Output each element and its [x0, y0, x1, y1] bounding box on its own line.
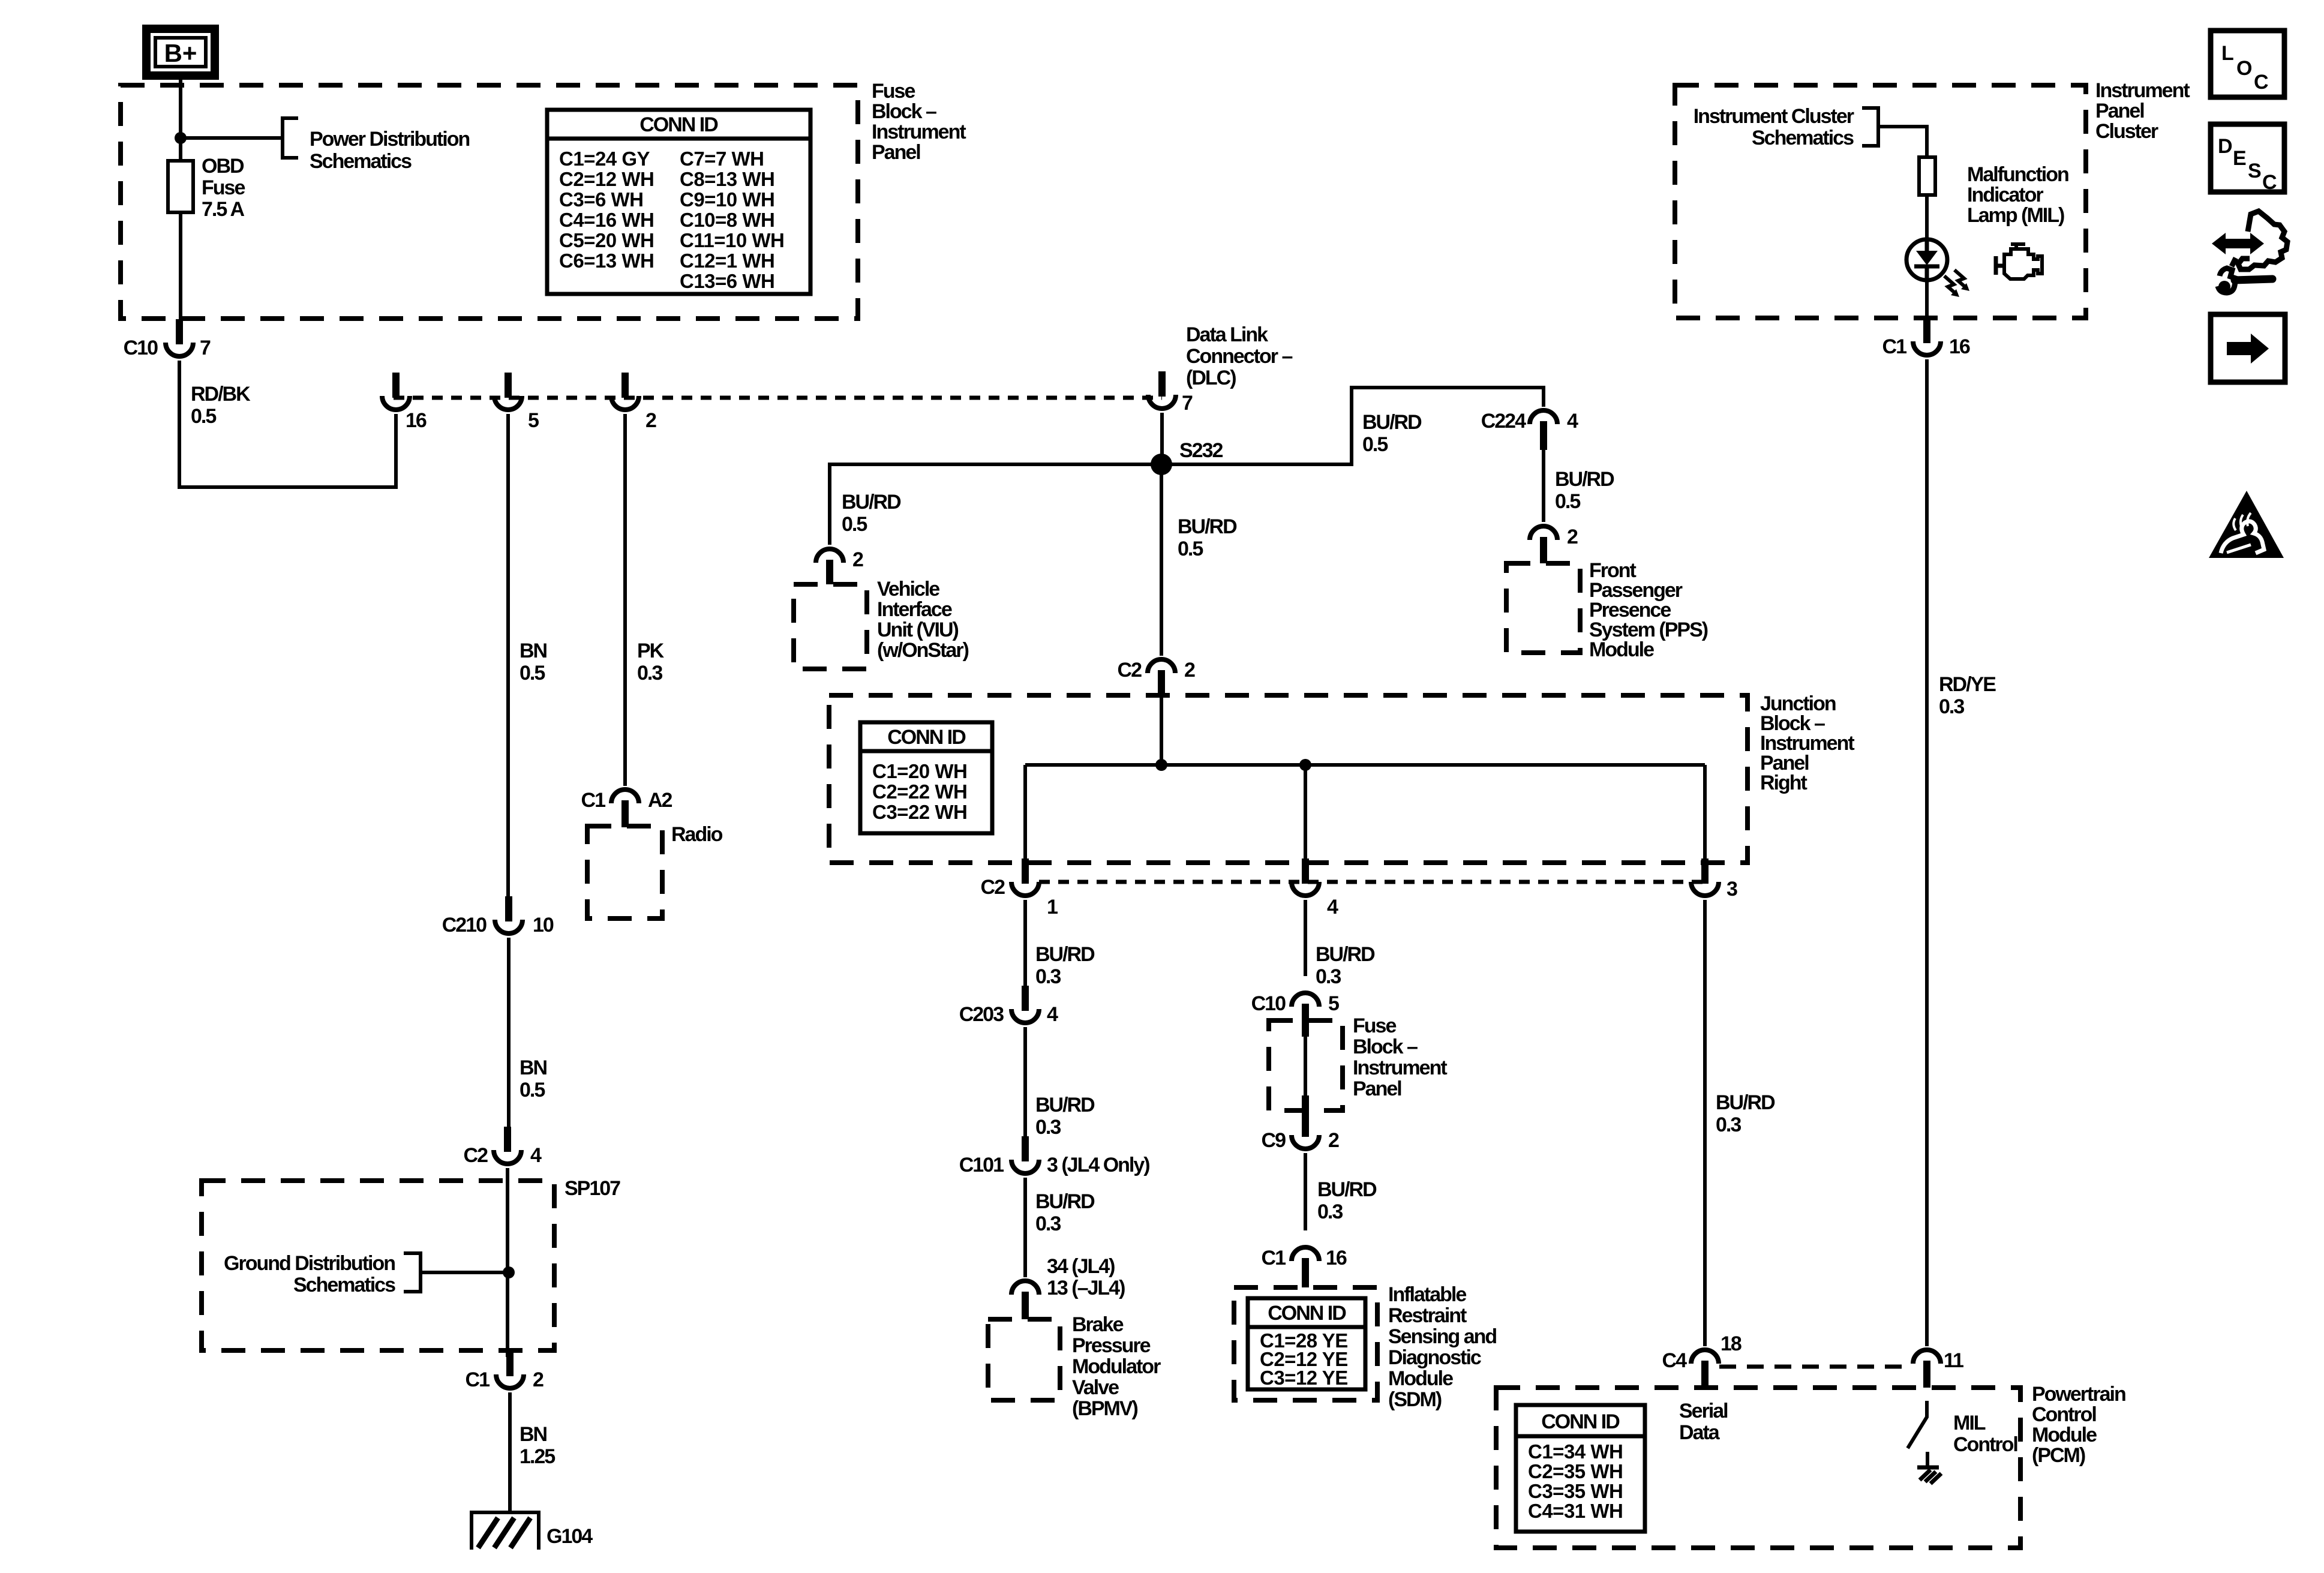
svg-text:C1: C1 — [1882, 335, 1907, 358]
connector BPMV — [1011, 1281, 1039, 1319]
wire LED to C1 — [1925, 280, 1929, 320]
connector DLC pin 2 — [611, 373, 639, 410]
wire S232 to VIU — [830, 464, 1161, 545]
svg-text:4: 4 — [1327, 896, 1338, 918]
bracket Instrument Cluster — [1862, 108, 1878, 146]
svg-text:4: 4 — [1567, 410, 1578, 433]
svg-text:S: S — [2248, 160, 2261, 182]
svg-text:L: L — [2221, 42, 2233, 65]
wire BU/RD 0.3 b1a — [1023, 900, 1027, 987]
svg-text:PK0.3: PK0.3 — [637, 640, 665, 685]
svg-text:C: C — [2262, 171, 2277, 194]
wire BU/RD 0.3 b2b — [1304, 1153, 1307, 1230]
svg-text:C203: C203 — [959, 1003, 1004, 1026]
svg-text:1: 1 — [1047, 896, 1058, 918]
stub fuse block exit — [1302, 1095, 1309, 1113]
svg-text:2: 2 — [1567, 526, 1578, 548]
svg-text:C5=20 WH: C5=20 WH — [559, 229, 654, 251]
icon arrows and wrench — [2212, 211, 2287, 293]
svg-text:C210: C210 — [442, 914, 487, 936]
connector C10 pin 5 — [1292, 993, 1319, 1037]
svg-text:C224: C224 — [1481, 410, 1526, 433]
wire resistor to LED — [1925, 195, 1929, 240]
wire through fuse block — [1304, 1020, 1307, 1110]
CONN ID table PCM — [1516, 1405, 1645, 1532]
svg-text:3: 3 — [1727, 878, 1737, 900]
svg-text:C12=1 WH: C12=1 WH — [680, 250, 774, 272]
icon DESC box — [2211, 124, 2284, 194]
svg-text:C9=10 WH: C9=10 WH — [680, 188, 774, 211]
svg-text:2: 2 — [852, 548, 863, 571]
wire C224 to PPS — [1542, 445, 1545, 522]
junction dot SP107 — [503, 1266, 515, 1278]
icon LOC box — [2211, 31, 2284, 97]
CONN ID table junction block — [860, 722, 992, 833]
ground G104 — [472, 1512, 539, 1550]
junction dot right — [1299, 759, 1311, 771]
CONN ID table SDM — [1248, 1298, 1365, 1389]
svg-text:C1=24 GY: C1=24 GY — [559, 148, 650, 170]
resistor MIL lamp — [1919, 157, 1935, 195]
connector C1 pin 16 — [1292, 1247, 1319, 1287]
svg-text:C11=10 WH: C11=10 WH — [680, 229, 784, 251]
svg-text:C3=12 YE: C3=12 YE — [1260, 1367, 1348, 1389]
junction dot fuse feed — [175, 132, 187, 144]
wire DLC7 to S232 — [1160, 413, 1164, 464]
wire bracket to SP107 — [421, 1271, 509, 1274]
connector C2 pin 1 — [1011, 858, 1039, 896]
svg-text:C: C — [2254, 71, 2268, 94]
svg-text:5: 5 — [528, 409, 539, 432]
svg-text:C1: C1 — [581, 789, 606, 812]
svg-text:CONN ID: CONN ID — [1268, 1302, 1346, 1325]
svg-text:16: 16 — [1949, 335, 1970, 358]
svg-text:SP107: SP107 — [565, 1177, 620, 1200]
fuse block small box — [1269, 1020, 1343, 1110]
wire branch 1 down — [1023, 765, 1027, 864]
svg-text:C2=22 WH: C2=22 WH — [872, 781, 967, 803]
svg-text:Radio: Radio — [671, 823, 723, 846]
connector DLC pin 7 — [1148, 371, 1176, 409]
svg-text:CONN ID: CONN ID — [639, 113, 718, 136]
wire RD/BK 0.5 — [179, 361, 396, 487]
dashed line C4 to 11 — [1719, 1365, 1912, 1369]
dashed bus wire to DLC — [394, 396, 1162, 400]
connector C2 pin 4 splice — [494, 1127, 521, 1164]
wire through SP107 — [506, 1168, 509, 1357]
svg-text:C3=6 WH: C3=6 WH — [559, 188, 643, 211]
svg-text:C2=35 WH: C2=35 WH — [1528, 1460, 1623, 1482]
wire RD/YE 0.3 — [1925, 359, 1929, 1346]
svg-text:C2: C2 — [981, 876, 1005, 899]
connector DLC pin 5 — [494, 373, 522, 410]
splice pack SP107 box — [202, 1181, 554, 1350]
connector C101 pin 3 — [1011, 1136, 1039, 1173]
wire C2 into junction block — [1160, 682, 1163, 765]
instrument panel cluster box — [1675, 85, 2086, 318]
PCM box — [1496, 1388, 2020, 1548]
wire branch 3 down — [1703, 765, 1707, 864]
svg-text:7: 7 — [1182, 392, 1193, 415]
splice S232 — [1151, 454, 1172, 475]
connector C4 pin 18 — [1691, 1350, 1719, 1388]
svg-text:D: D — [2218, 135, 2232, 158]
svg-text:4: 4 — [530, 1144, 542, 1167]
connector VIU pin 2 — [816, 549, 843, 584]
engine icon — [1996, 244, 2042, 279]
power symbol B+ — [146, 29, 215, 76]
svg-text:C4: C4 — [1662, 1349, 1688, 1372]
svg-text:4: 4 — [1047, 1003, 1058, 1026]
wire BU/RD 0.3 b1b — [1023, 1027, 1027, 1137]
svg-text:C3=35 WH: C3=35 WH — [1528, 1480, 1623, 1502]
svg-text:C2: C2 — [464, 1144, 488, 1167]
svg-text:C8=13 WH: C8=13 WH — [680, 168, 774, 190]
bracket Power Distribution — [283, 118, 298, 158]
bracket Ground Distribution — [404, 1253, 421, 1292]
svg-text:3 (JL4 Only): 3 (JL4 Only) — [1047, 1154, 1149, 1176]
wire BN 0.5 upper — [506, 414, 510, 901]
svg-text:C13=6 WH: C13=6 WH — [680, 270, 774, 292]
svg-text:C2: C2 — [1118, 659, 1142, 682]
svg-text:O: O — [2236, 57, 2252, 80]
BPMV box — [988, 1319, 1060, 1400]
svg-text:A2: A2 — [648, 789, 672, 812]
wire BN 1.25 — [508, 1392, 512, 1512]
connector C1 pin 2 — [496, 1351, 524, 1388]
LED MIL lamp — [1906, 239, 1947, 280]
svg-text:11: 11 — [1944, 1349, 1963, 1372]
svg-text:C10: C10 — [1251, 992, 1286, 1015]
wire to power distribution bracket — [181, 136, 281, 140]
svg-text:7: 7 — [200, 337, 211, 359]
connector pin 11 — [1913, 1350, 1941, 1388]
svg-text:16: 16 — [406, 409, 427, 432]
svg-text:B+: B+ — [164, 39, 197, 67]
connector pin 3 — [1691, 858, 1719, 896]
switch MIL control — [1908, 1401, 1927, 1448]
svg-text:C4=16 WH: C4=16 WH — [559, 209, 654, 231]
connector C224 pin 4 — [1530, 410, 1557, 450]
svg-text:2: 2 — [1184, 659, 1195, 682]
connector C10 pin 7 — [166, 319, 193, 356]
SDM box — [1234, 1287, 1377, 1400]
svg-text:BN0.5: BN0.5 — [520, 640, 547, 685]
icon right arrow box — [2211, 314, 2285, 382]
svg-text:C101: C101 — [959, 1154, 1004, 1176]
svg-text:E: E — [2233, 147, 2246, 170]
connector C210 pin 10 — [495, 896, 523, 933]
svg-text:2: 2 — [1328, 1129, 1339, 1152]
svg-text:CONN ID: CONN ID — [1541, 1410, 1620, 1433]
Radio box — [587, 826, 662, 918]
svg-text:S232: S232 — [1179, 439, 1223, 462]
wire BN 0.5 lower — [507, 938, 511, 1128]
svg-text:16: 16 — [1326, 1247, 1347, 1269]
wire PK 0.3 — [623, 414, 627, 786]
ground chassis PCM — [1917, 1467, 1941, 1484]
fuse block - instrument panel box — [121, 85, 858, 319]
svg-text:C10=8 WH: C10=8 WH — [680, 209, 774, 231]
junction block - instrument panel right box — [829, 695, 1747, 863]
svg-text:5: 5 — [1328, 992, 1339, 1015]
svg-text:C4=31 WH: C4=31 WH — [1528, 1500, 1623, 1522]
svg-text:34 (JL4)13 (–JL4): 34 (JL4)13 (–JL4) — [1047, 1255, 1125, 1299]
wire branch 2 down — [1304, 765, 1307, 864]
connector PPS pin 2 — [1530, 526, 1557, 563]
PPS module box — [1506, 563, 1580, 653]
svg-text:2: 2 — [645, 409, 656, 432]
svg-text:BN0.5: BN0.5 — [520, 1056, 547, 1101]
svg-text:C1: C1 — [1262, 1247, 1286, 1269]
fuse OBD 7.5A — [168, 161, 193, 212]
svg-text:10: 10 — [533, 914, 554, 936]
junction block internal bus — [1025, 763, 1705, 767]
icon airbag warning triangle — [2209, 491, 2284, 558]
wire S232 to C224 — [1161, 388, 1544, 464]
wire B+ to fuse — [179, 76, 182, 161]
junction dot left — [1155, 759, 1167, 771]
svg-text:2: 2 — [533, 1368, 544, 1391]
wire bracket to resistor — [1878, 127, 1927, 157]
wire BU/RD 0.3 b1c — [1023, 1178, 1027, 1277]
connector C1 pin 16 cluster — [1913, 318, 1941, 355]
lightning arrows — [1944, 276, 1957, 295]
svg-text:C10: C10 — [124, 337, 158, 359]
svg-text:C6=13 WH: C6=13 WH — [559, 250, 654, 272]
connector C2 pin 2 junction block — [1148, 659, 1175, 695]
svg-text:C2=12 WH: C2=12 WH — [559, 168, 654, 190]
connector C203 pin 4 — [1011, 986, 1039, 1023]
svg-text:G104: G104 — [547, 1525, 593, 1548]
connector pin 4 — [1292, 858, 1319, 896]
svg-text:C1=20 WH: C1=20 WH — [872, 760, 967, 782]
svg-text:C3=22 WH: C3=22 WH — [872, 801, 967, 823]
svg-text:C1=34 WH: C1=34 WH — [1528, 1440, 1623, 1463]
svg-text:C9: C9 — [1262, 1129, 1286, 1152]
wire BU/RD 0.3 serial data — [1703, 900, 1707, 1346]
connector C9 pin 2 — [1292, 1112, 1319, 1149]
svg-text:CONN ID: CONN ID — [887, 726, 966, 749]
wire BU/RD 0.3 b2a — [1304, 900, 1307, 976]
svg-text:C7=7 WH: C7=7 WH — [680, 148, 764, 170]
dashed connector row line — [1039, 880, 1705, 884]
svg-text:OBDFuse7.5 A: OBDFuse7.5 A — [202, 155, 245, 221]
wire fuse to C10 — [179, 212, 182, 320]
connector DLC pin 16 — [382, 373, 410, 410]
svg-text:C1: C1 — [466, 1368, 490, 1391]
CONN ID table fuse block — [547, 110, 810, 294]
VIU box — [794, 584, 867, 669]
wire S232 to C2 — [1160, 464, 1163, 656]
svg-text:18: 18 — [1721, 1332, 1742, 1355]
connector C1 pin A2 — [611, 789, 639, 827]
